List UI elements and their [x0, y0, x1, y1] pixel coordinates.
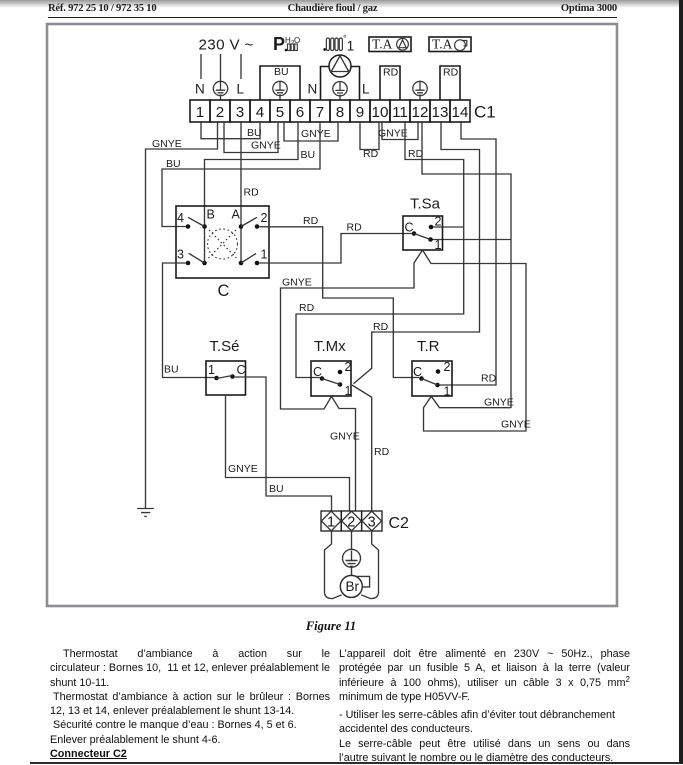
T.R switch arm C-1: [422, 379, 438, 386]
connector C pin A top: [239, 224, 244, 229]
T.R pin 2: [436, 369, 441, 374]
svg-text:RD: RD: [383, 67, 399, 79]
thermostat T.Sa box: [403, 216, 443, 250]
connector C box: [176, 206, 269, 278]
svg-text:BU: BU: [166, 158, 181, 170]
svg-text:C: C: [237, 363, 246, 377]
svg-text:11: 11: [392, 104, 408, 121]
clock thermostat box RD (terminals 13-14): [440, 66, 460, 100]
svg-text:13: 13: [432, 104, 449, 121]
thermostat T.R box: [412, 361, 452, 396]
thermostat T.Mx box: [311, 361, 351, 396]
wire GNYE terminal 2 to ground: [146, 122, 218, 508]
T.A box with burner icon (terminals 13-14): [429, 37, 471, 52]
svg-text:T.A: T.A: [372, 37, 393, 52]
svg-text:2: 2: [345, 360, 352, 374]
connector C2 terminal 1: [321, 511, 341, 531]
earth symbol above terminal 12: [413, 81, 427, 100]
pressure switch icon P H2O: [273, 34, 300, 54]
T.Se pin C: [230, 374, 235, 379]
wire RD T.Mx pin 1 to connector C2 pin 3: [352, 385, 372, 511]
svg-text:GNYE: GNYE: [301, 128, 331, 140]
outer frame: [47, 24, 617, 606]
svg-text:Br: Br: [346, 579, 360, 594]
switch arm A-pin2: [241, 217, 257, 226]
wire BU T.Se pin C to connector C2 pin 1: [235, 377, 332, 511]
svg-text:RD: RD: [374, 446, 390, 458]
svg-text:2: 2: [216, 104, 224, 121]
svg-text:C: C: [413, 365, 422, 379]
ground symbol: [137, 509, 154, 517]
connector C2 terminal 2: [341, 511, 361, 531]
T.Se pin 1: [214, 376, 219, 381]
T.A box with clock icon (terminals 10-11): [369, 37, 411, 52]
svg-text:GNYE: GNYE: [484, 397, 514, 409]
connector C pin B bottom: [202, 261, 207, 266]
svg-text:T.R: T.R: [417, 338, 440, 355]
svg-text:5: 5: [276, 104, 284, 121]
radiator icon with 1: [323, 34, 354, 54]
svg-text:GNYE: GNYE: [501, 419, 531, 431]
connector C2 terminal 3: [362, 511, 382, 531]
svg-text:GNYE: GNYE: [228, 463, 258, 475]
svg-text:2: 2: [347, 515, 355, 531]
svg-text:N: N: [308, 82, 318, 97]
svg-text:T.A: T.A: [432, 37, 453, 52]
connector C pin 3: [186, 261, 191, 266]
svg-text:RD: RD: [363, 148, 379, 160]
svg-text:14: 14: [452, 104, 469, 121]
wire tap T.Sa pin 1: [433, 239, 512, 241]
T.Mx pin 2: [338, 370, 343, 375]
wire GNYE link terminal 5 to terminal 8: [284, 122, 338, 141]
svg-text:12: 12: [412, 104, 429, 121]
svg-text:6: 6: [296, 104, 304, 121]
svg-text:1: 1: [435, 238, 442, 252]
svg-text:B: B: [207, 208, 215, 222]
svg-text:2: 2: [435, 215, 442, 229]
T.Mx pin C: [320, 376, 325, 381]
wire GNYE T.R fork right to terminal 12 riser: [431, 396, 511, 407]
svg-text:1: 1: [196, 104, 204, 121]
wire connector C2 pin 1 to burner: [325, 531, 342, 599]
svg-text:BU: BU: [247, 127, 262, 139]
connector C pin 4: [186, 224, 191, 229]
pump symbol: [329, 55, 351, 77]
wire GNYE link terminal 2 to terminal 5: [224, 122, 278, 153]
room thermostat box RD (terminals 10-11): [380, 66, 400, 100]
wire tap T.Sa pin 2: [433, 226, 464, 228]
wire RD terminal 13 to T.Mx pin 1: [354, 122, 480, 384]
T.R pin 1: [435, 383, 440, 388]
svg-text:1: 1: [347, 38, 355, 54]
svg-text:GNYE: GNYE: [330, 431, 360, 443]
svg-text:1: 1: [327, 515, 335, 531]
svg-text:BU: BU: [164, 364, 179, 376]
wire earth stub from 230V: [220, 54, 222, 81]
wire connector C2 pin 2 to burner earth: [351, 531, 353, 551]
connector C pin 1: [255, 261, 260, 266]
svg-text:1: 1: [444, 385, 451, 399]
connector C pin B top: [202, 224, 207, 229]
svg-text:T.Sa: T.Sa: [410, 196, 441, 213]
wire GNYE T.Sa fork to T.R fork: [423, 250, 527, 431]
T.Mx pin 1: [338, 382, 343, 387]
svg-text:C: C: [405, 221, 414, 235]
burner Br symbol: [340, 575, 369, 597]
svg-text:9: 9: [356, 104, 364, 121]
svg-text:RD: RD: [481, 373, 497, 385]
svg-text:BU: BU: [301, 149, 316, 161]
svg-text:GNYE: GNYE: [251, 140, 281, 152]
T.R pin C: [419, 376, 424, 381]
svg-text:GNYE: GNYE: [282, 277, 312, 289]
terminal strip C1: [190, 100, 470, 122]
switch arm pin4-B: [188, 217, 205, 226]
svg-text:1: 1: [261, 248, 268, 262]
svg-text:3: 3: [177, 248, 184, 262]
connector C pin A bottom: [239, 261, 244, 266]
svg-text:C1: C1: [474, 103, 496, 122]
connector C pin 2: [255, 224, 260, 229]
wire GNYE terminal 12 to T.R right fork: [422, 122, 511, 408]
svg-text:GNYE: GNYE: [152, 138, 182, 150]
wire connector C2 pin 3 to burner: [361, 531, 378, 599]
wire RD terminal 14 to T.R pin 1: [440, 122, 496, 385]
pump bracket (terminals 7-9): [321, 67, 360, 101]
water-lack connector box BU (terminals 4-6): [260, 66, 300, 100]
svg-text:BU: BU: [274, 66, 289, 78]
svg-text:4: 4: [256, 104, 264, 121]
earth symbol on burner: [343, 549, 361, 575]
svg-text:8: 8: [336, 104, 344, 121]
wire GNYE link terminal 10 to terminal 12: [382, 122, 418, 140]
T.Sa pin 2: [429, 225, 434, 230]
T.Mx switch arm C-1: [322, 379, 340, 385]
earth symbol above terminal 5: [273, 81, 287, 100]
wire L stub from 230V: [240, 54, 242, 79]
wire GNYE T.Sa fork to T.Mx fork: [281, 250, 423, 409]
svg-text:C2: C2: [389, 515, 410, 532]
switch arm A-pin1: [241, 254, 256, 264]
svg-text:RD: RD: [347, 222, 363, 234]
svg-text:3: 3: [368, 515, 376, 531]
svg-text:230 V ~: 230 V ~: [199, 37, 254, 54]
earth symbol above terminal 2: [213, 81, 227, 100]
svg-text:C: C: [313, 365, 322, 379]
T.Sa switch arm C-1: [414, 234, 431, 240]
svg-text:RD: RD: [443, 67, 459, 79]
svg-text:10: 10: [372, 104, 389, 121]
thermostat T.Se box: [206, 361, 246, 395]
svg-text:T.Sé: T.Sé: [210, 338, 240, 355]
svg-text:7: 7: [316, 104, 324, 121]
T.Sa pin C: [412, 231, 417, 236]
earth symbol above terminal 8: [333, 82, 347, 101]
svg-text:GNYE: GNYE: [378, 128, 408, 140]
svg-text:RD: RD: [408, 148, 424, 160]
svg-text:2: 2: [261, 211, 268, 225]
svg-text:RD: RD: [299, 302, 315, 314]
svg-text:RD: RD: [373, 321, 389, 333]
wire BU link terminal 1 to terminal 4: [201, 122, 260, 139]
svg-text:N: N: [195, 82, 205, 97]
wire BU terminal 7 to connector C pin 4: [162, 122, 320, 227]
right text column: [339, 647, 630, 765]
T.Se switch arm 1-C: [217, 376, 233, 379]
wire RD terminal 11 to T.Sa pin 2 and T.Mx pin C: [296, 122, 464, 378]
svg-text:L: L: [362, 82, 370, 97]
wire RD link terminal 9 to terminal 10: [360, 122, 379, 150]
dotted cam circle of connector C: [208, 229, 238, 259]
svg-text:1: 1: [345, 384, 352, 398]
wire GNYE T.Se bottom to connector C2 pin 2: [226, 395, 350, 511]
svg-text:3: 3: [236, 104, 244, 121]
left text column: [50, 647, 330, 761]
svg-text:P: P: [273, 34, 285, 54]
svg-text:T.Mx: T.Mx: [314, 338, 346, 355]
svg-text:1: 1: [208, 363, 215, 377]
svg-text:2: 2: [444, 360, 451, 374]
wire BU connector C pin 3 to T.Se pin 1: [163, 263, 215, 378]
svg-text:A: A: [232, 208, 241, 222]
wire RD connector C pin 1 to T.Sa pin C: [259, 234, 411, 264]
switch arm pin3-B: [189, 253, 205, 263]
svg-text:RD: RD: [244, 187, 260, 199]
svg-text:L: L: [237, 82, 245, 97]
wire BU terminal 6 down to connector C pin B: [205, 122, 299, 263]
svg-text:BU: BU: [269, 483, 284, 495]
wire N stub from 230V: [200, 54, 202, 79]
wire GNYE T.Mx fork to connector C2 pin 2: [332, 396, 356, 511]
svg-text:RD: RD: [303, 215, 319, 227]
wire RD connector C pin 2 to T.R pin C: [259, 227, 419, 378]
svg-text:C: C: [218, 282, 230, 300]
svg-text:4: 4: [177, 211, 184, 225]
wire RD terminal 3 (L) down to connector C pin A: [240, 122, 242, 263]
T.Sa pin 1: [428, 237, 433, 242]
